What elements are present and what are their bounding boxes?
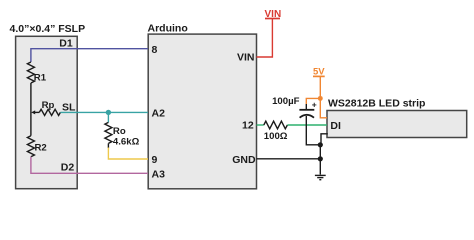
junction dot GND node xyxy=(318,156,323,161)
svg-text:DI: DI xyxy=(330,120,341,132)
wire to DI (green) xyxy=(287,124,327,126)
svg-text:D2: D2 xyxy=(61,162,75,174)
svg-text:4.0”×0.4” FSLP: 4.0”×0.4” FSLP xyxy=(10,23,86,35)
wire ground node to ground symbol (black) xyxy=(319,145,321,175)
wire GND (black) from Arduino to ground node xyxy=(257,158,321,160)
svg-text:4.6kΩ: 4.6kΩ xyxy=(113,136,140,147)
svg-text:WS2812B LED strip: WS2812B LED strip xyxy=(328,98,425,110)
svg-text:A3: A3 xyxy=(152,169,166,181)
capacitor C1 top lead xyxy=(305,104,307,110)
wire 5V branch to capacitor (orange) xyxy=(306,98,320,104)
svg-text:GND: GND xyxy=(232,154,256,166)
svg-text:12: 12 xyxy=(242,119,254,131)
junction dot 5V node (orange) xyxy=(318,96,323,101)
wire 5V down to junction (orange) xyxy=(319,77,321,98)
svg-text:+: + xyxy=(312,100,317,110)
svg-text:R1: R1 xyxy=(34,73,47,84)
resistor Ro xyxy=(105,122,112,143)
svg-text:8: 8 xyxy=(152,44,158,56)
wire LED strip ground stub (black) xyxy=(321,134,328,145)
svg-text:D1: D1 xyxy=(59,38,73,50)
wire D1 (blue) from FSLP chain to Arduino pin 8 xyxy=(31,49,148,62)
supply VIN bar xyxy=(265,18,280,20)
ground symbol xyxy=(315,175,326,179)
wire chain between R1 and R2 (black) xyxy=(30,83,32,136)
svg-text:SL: SL xyxy=(62,102,76,114)
resistor R1 xyxy=(27,62,34,83)
supply 5V bar xyxy=(313,75,325,77)
wire from SL junction down to Ro (teal) xyxy=(107,112,109,122)
wire 5V branch into LED strip (orange) xyxy=(320,98,327,117)
svg-text:9: 9 xyxy=(152,154,158,166)
wire VIN (red) to Arduino VIN pin xyxy=(257,19,273,57)
junction dot capacitor/strip ground xyxy=(318,142,323,147)
wire D2 (magenta) from R2 to Arduino pin A3 xyxy=(31,157,148,174)
wire capacitor negative to ground junction (black) xyxy=(306,116,320,145)
svg-text:100µF: 100µF xyxy=(272,96,300,107)
capacitor C1 top plate xyxy=(299,109,314,111)
svg-text:Arduino: Arduino xyxy=(148,22,188,34)
svg-text:Rp: Rp xyxy=(42,100,55,111)
junction dot SL node xyxy=(106,110,111,115)
wire pin 12 stub (green) xyxy=(257,124,264,126)
svg-text:VIN: VIN xyxy=(237,52,255,64)
wire Ro to pin 9 (yellow) xyxy=(108,148,148,160)
resistor Rp with wiper arrow xyxy=(31,110,35,114)
wire SL (teal) from Rp to Arduino pin A2 xyxy=(60,111,148,113)
svg-text:R2: R2 xyxy=(35,142,47,153)
FSLP sensor box xyxy=(16,36,78,188)
wire Ro bottom stub (black) xyxy=(107,143,109,148)
WS2812B LED strip box xyxy=(327,111,467,138)
resistor R2 xyxy=(27,136,34,157)
svg-text:Ro: Ro xyxy=(113,126,126,137)
capacitor C1 curved bottom plate xyxy=(300,115,314,118)
Arduino box xyxy=(148,34,256,189)
svg-text:A2: A2 xyxy=(152,107,166,119)
resistor 100 ohm xyxy=(264,121,288,129)
svg-text:100Ω: 100Ω xyxy=(264,131,288,142)
